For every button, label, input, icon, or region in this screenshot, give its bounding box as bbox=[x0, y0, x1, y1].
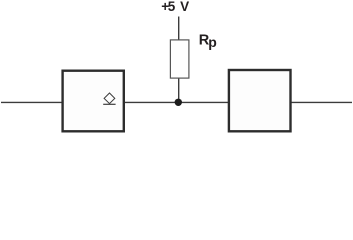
svg-text:p: p bbox=[208, 34, 217, 50]
svg-text:V: V bbox=[180, 0, 189, 14]
svg-text:5: 5 bbox=[168, 0, 176, 14]
